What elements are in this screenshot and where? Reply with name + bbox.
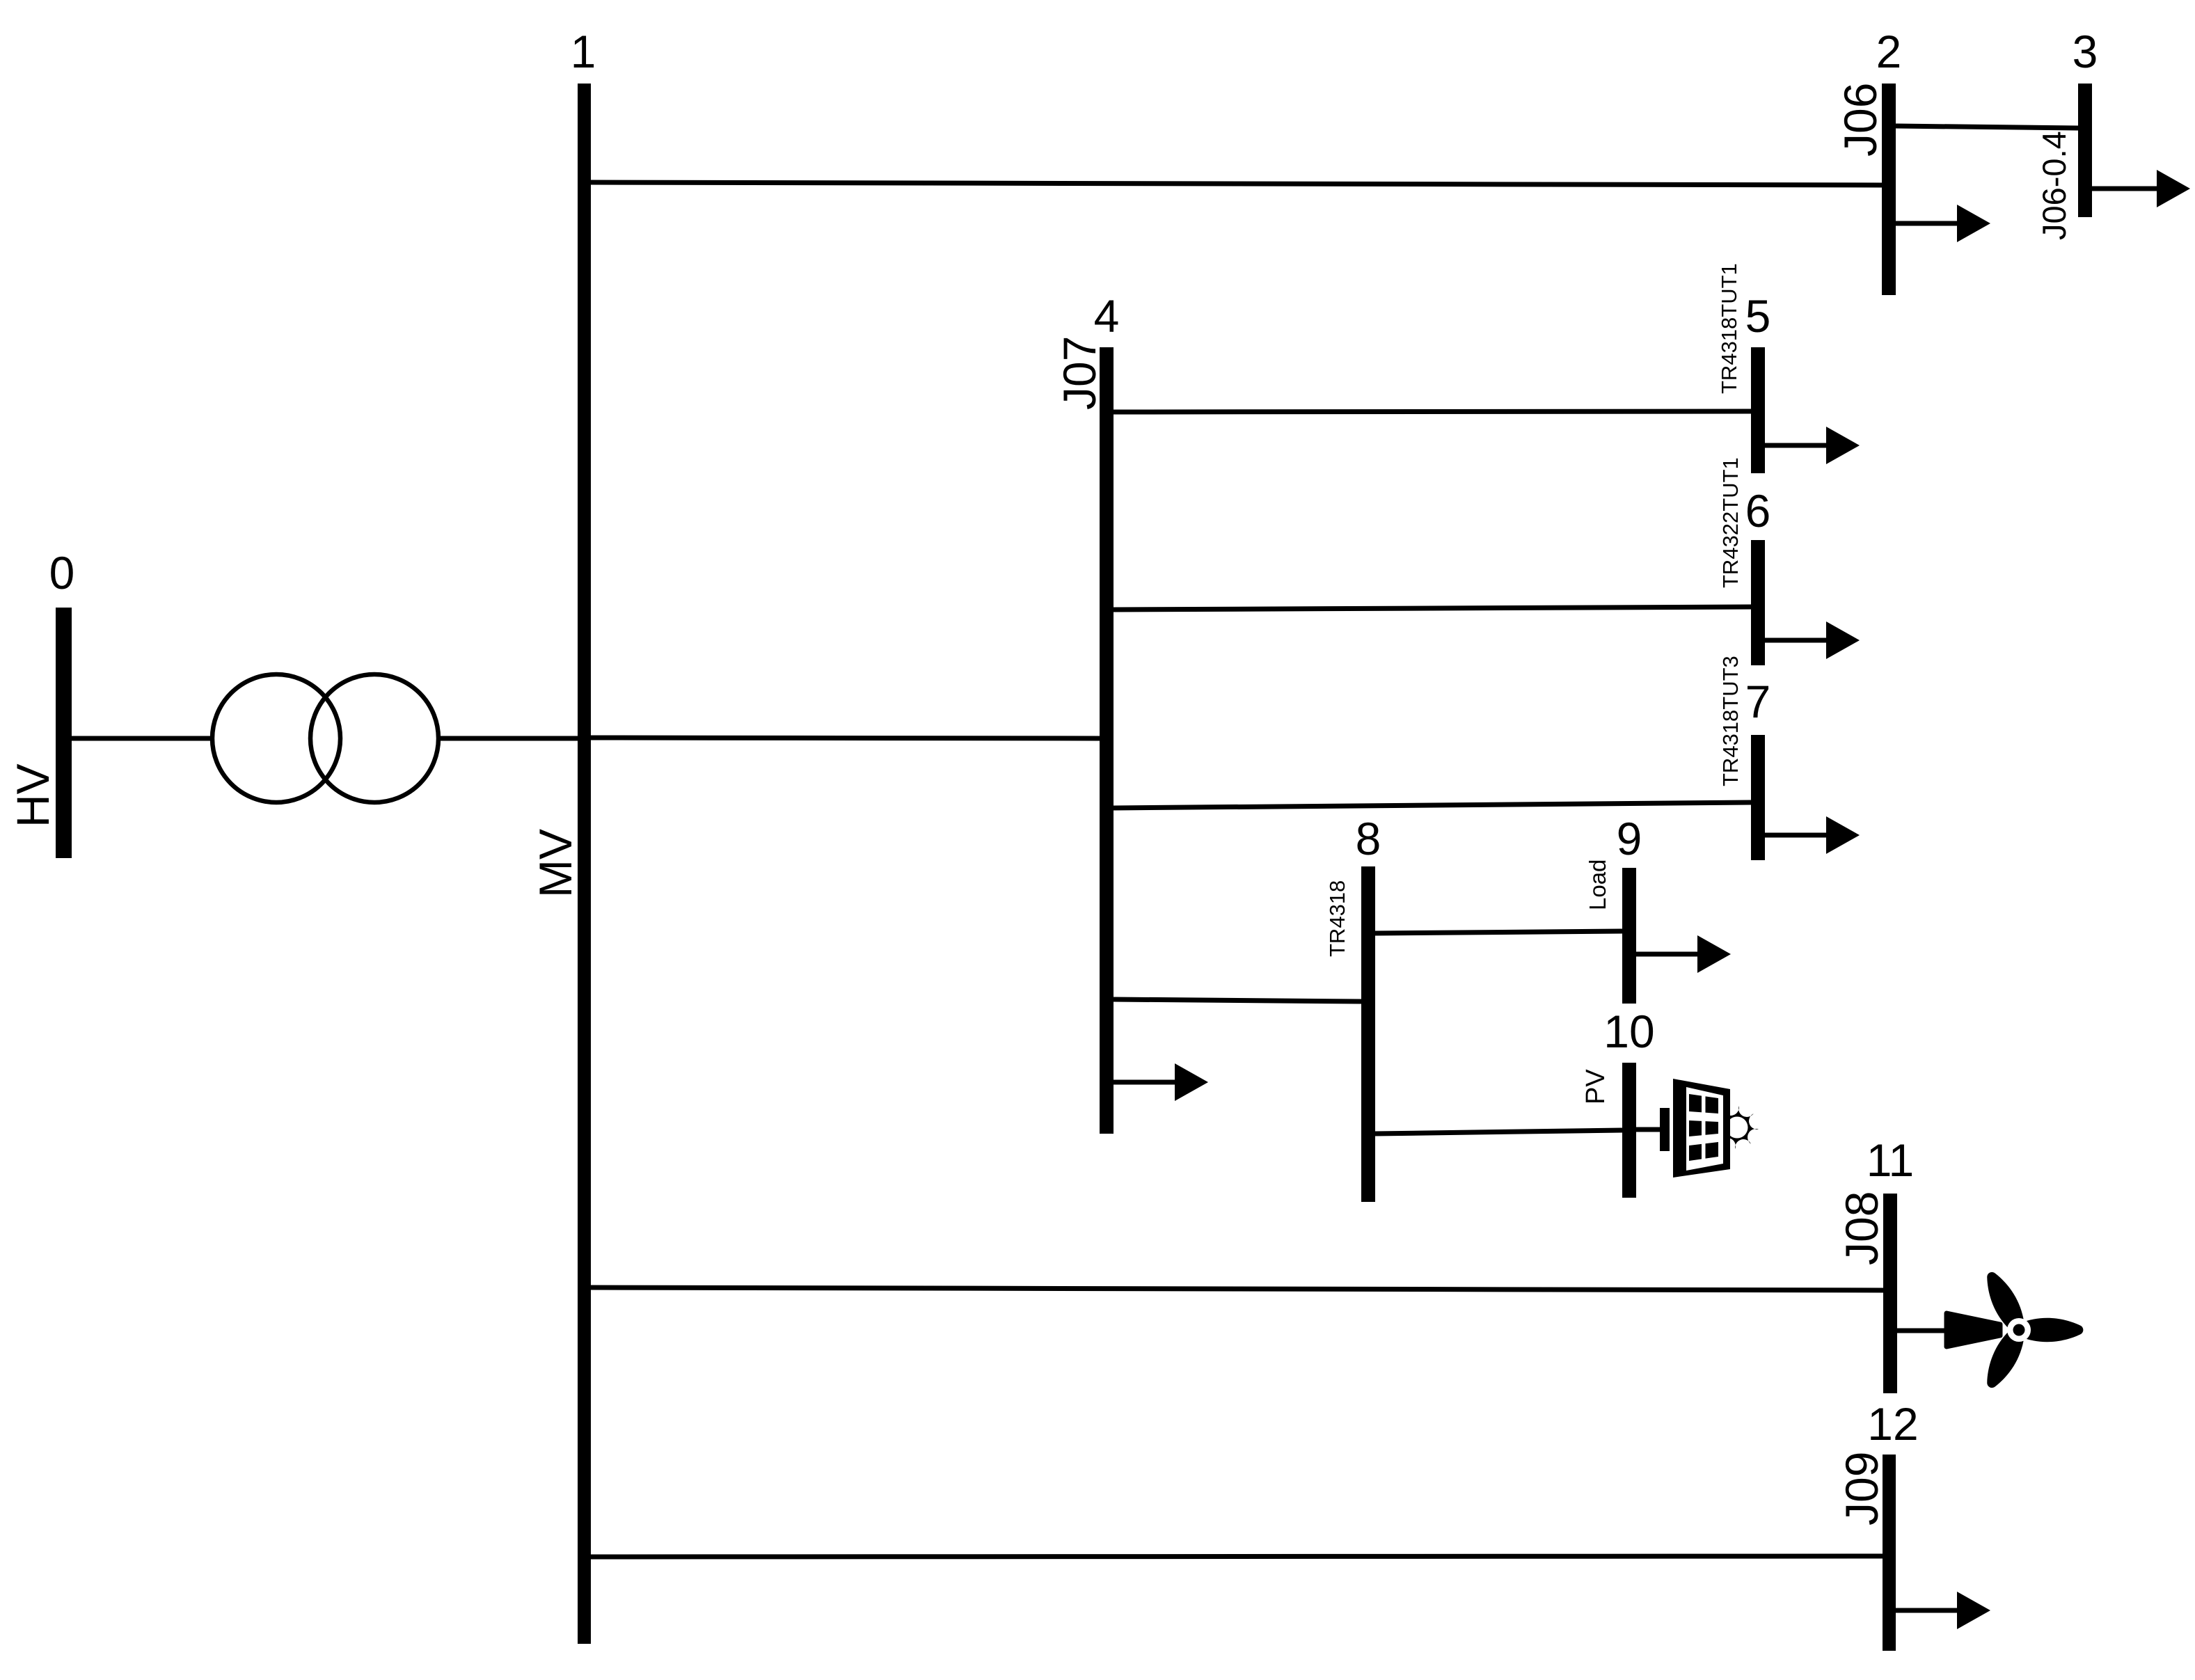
bus 7 (TR4318TUT3 busbar) xyxy=(1751,735,1765,860)
load arrow at bus 6 xyxy=(1765,621,1860,659)
load arrow at bus 7 xyxy=(1765,816,1860,854)
bus 11 (J08 busbar) xyxy=(1883,1194,1897,1393)
svg-text:TR4318TUT1: TR4318TUT1 xyxy=(1717,263,1741,394)
svg-text:J06-0.4: J06-0.4 xyxy=(2036,131,2073,240)
svg-text:2: 2 xyxy=(1876,26,1902,77)
svg-text:0: 0 xyxy=(49,547,75,599)
bus 12 (J09 busbar) xyxy=(1883,1455,1896,1651)
svg-text:6: 6 xyxy=(1745,485,1771,537)
PV generator at bus 10 (solar panel with sun) xyxy=(1660,1079,1759,1178)
svg-text:3: 3 xyxy=(2073,26,2098,77)
bus 2 (J06 busbar) xyxy=(1882,84,1896,295)
svg-text:4: 4 xyxy=(1094,290,1120,342)
bus 8 (TR4318 busbar) xyxy=(1361,866,1375,1202)
svg-text:10: 10 xyxy=(1603,1006,1654,1057)
svg-text:TR4322TUT1: TR4322TUT1 xyxy=(1718,457,1743,588)
svg-text:TR4318TUT3: TR4318TUT3 xyxy=(1718,656,1743,786)
load arrow at bus 3 xyxy=(2092,170,2190,207)
wire bus 4 to bus 5 xyxy=(1114,411,1751,412)
wire bus 1 to bus 4 (line J07 feeder) xyxy=(591,738,1100,738)
wire HV bus to transformer xyxy=(70,736,212,741)
svg-text:7: 7 xyxy=(1745,676,1771,727)
wire bus 1 to bus 12 (line to J09) xyxy=(591,1556,1883,1557)
wire bus 8 to bus 10 xyxy=(1375,1130,1622,1134)
wind generator at bus 11 (wind turbine) xyxy=(1947,1267,2083,1393)
wire transformer to MV bus xyxy=(439,736,578,741)
bus 9 (Load busbar) xyxy=(1622,868,1636,1004)
bus 5 (TR4318TUT1 busbar) xyxy=(1751,347,1765,473)
svg-text:TR4318: TR4318 xyxy=(1325,880,1349,957)
svg-text:12: 12 xyxy=(1867,1398,1918,1450)
svg-text:HV: HV xyxy=(7,763,58,827)
wire bus 4 to bus 7 xyxy=(1114,802,1751,808)
svg-text:9: 9 xyxy=(1617,813,1642,864)
svg-text:Load: Load xyxy=(1585,859,1610,910)
svg-text:1: 1 xyxy=(571,26,596,77)
svg-text:11: 11 xyxy=(1867,1134,1915,1186)
svg-text:J09: J09 xyxy=(1836,1452,1887,1526)
bus 6 (TR4322TUT1 busbar) xyxy=(1751,540,1765,665)
wire bus 1 to bus 2 (line to J06) xyxy=(591,182,1882,185)
load arrow at bus 5 xyxy=(1765,427,1860,464)
wire bus 10 to PV generator xyxy=(1636,1127,1660,1132)
wire bus 4 to bus 8 xyxy=(1114,999,1361,1001)
svg-text:MV: MV xyxy=(530,829,581,898)
svg-text:5: 5 xyxy=(1745,290,1771,342)
bus 10 (PV busbar) xyxy=(1622,1063,1636,1198)
transformer T1 (HV/MV) xyxy=(212,674,438,802)
wire bus 4 to bus 6 xyxy=(1114,607,1751,610)
load arrow at bus 2 xyxy=(1896,205,1990,242)
wire bus 2 to bus 3 (line J06 to J06-0.4) xyxy=(1896,126,2078,128)
svg-text:8: 8 xyxy=(1356,813,1381,864)
bus 3 (J06-0.4 busbar) xyxy=(2078,84,2092,217)
svg-text:J06: J06 xyxy=(1835,83,1886,157)
bus 4 (J07 busbar) xyxy=(1100,347,1114,1134)
wire bus 11 to wind generator xyxy=(1897,1329,1944,1333)
svg-text:J07: J07 xyxy=(1054,336,1105,410)
wire bus 8 to bus 9 xyxy=(1375,931,1622,933)
bus 1 (MV busbar) xyxy=(578,84,591,1644)
svg-text:J08: J08 xyxy=(1836,1191,1887,1265)
load arrow at bus 12 xyxy=(1896,1592,1990,1629)
bus 0 (HV busbar) xyxy=(56,608,72,858)
svg-text:PV: PV xyxy=(1581,1069,1610,1104)
load arrow at bus 9 xyxy=(1636,935,1731,973)
wire bus 1 to bus 11 (line to J08) xyxy=(591,1287,1883,1290)
load arrow at bus 4 xyxy=(1114,1063,1208,1101)
